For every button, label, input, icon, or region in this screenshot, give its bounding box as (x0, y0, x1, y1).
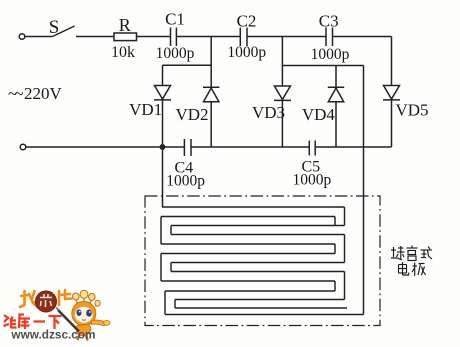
wire VD1 cathode to node A (162, 100, 164, 147)
glyph dian (399, 262, 410, 275)
watermark mascot (56, 290, 110, 340)
svg-text:1000p: 1000p (311, 46, 350, 63)
wire VD5 cathode to bottom rail (391, 100, 393, 147)
svg-text:R: R (119, 15, 131, 35)
capacitor C3 (325, 28, 327, 47)
maze electrode dashed enclosure (145, 196, 380, 326)
capacitor C5 (308, 141, 310, 156)
diode VD5 (384, 86, 400, 100)
maze electrode pattern (161, 207, 364, 315)
wire node A to maze electrode left side (162, 147, 164, 207)
svg-text:VD2: VD2 (175, 105, 208, 124)
capacitor C2 (239, 28, 241, 47)
svg-text:220V: 220V (24, 84, 63, 103)
electrode track horizontal runs (162, 206, 345, 208)
svg-text:1000p: 1000p (293, 172, 332, 189)
glyph mi (391, 246, 405, 260)
svg-text:~: ~ (15, 84, 24, 103)
svg-text:1000p: 1000p (156, 45, 195, 62)
svg-text:C1: C1 (165, 10, 185, 29)
watermark dark circle emblem (36, 291, 57, 312)
svg-text:1000p: 1000p (227, 44, 266, 61)
wire C1 to C2 (176, 36, 240, 38)
wire switch to resistor (76, 36, 114, 38)
glyph ji (412, 263, 426, 277)
electrode left end caps (160, 217, 162, 245)
svg-text:VD5: VD5 (395, 101, 428, 120)
diode VD3 (274, 86, 290, 100)
wire bottom rail middle (191, 146, 309, 148)
diode VD1 (155, 86, 171, 100)
wire bottom rail right (315, 146, 391, 148)
wire VD4 branch from link (335, 66, 337, 88)
wire feed to maze electrode right side (363, 66, 365, 315)
wire VD4 anode to bottom rail (335, 102, 337, 147)
electrode right end caps (344, 207, 346, 226)
watermark text zhao-xin-pian (20, 290, 72, 307)
glyph shi (421, 247, 433, 260)
wire resistor to C1 (137, 36, 171, 38)
svg-text:C2: C2 (237, 12, 257, 31)
terminal bottom-left (AC input N) (20, 144, 26, 150)
svg-text:VD1: VD1 (129, 100, 162, 119)
node A junction dot (160, 145, 164, 149)
wire bottom rail left (26, 146, 184, 148)
resistor R (114, 33, 137, 41)
svg-text:www.dzsc.com: www.dzsc.com (10, 328, 95, 342)
switch S blade (53, 26, 75, 37)
diode VD2 (203, 86, 219, 88)
wire link VD3 branch to electrode feed (282, 65, 363, 67)
wire VD2 anode to bottom rail (210, 102, 212, 147)
wire VD3 cathode to bottom rail (281, 100, 283, 147)
svg-text:10k: 10k (111, 44, 135, 61)
wire VD2 branch from top rail (210, 37, 212, 88)
watermark text wei-ku-yi-xia (red) (4, 315, 62, 330)
wire down to VD5 anode (391, 37, 393, 86)
svg-text:VD3: VD3 (252, 103, 285, 122)
svg-text:VD4: VD4 (302, 105, 336, 124)
wire C2 to C3 (247, 36, 326, 38)
svg-text:1000p: 1000p (166, 173, 205, 190)
wire link to VD1 anode (162, 65, 164, 85)
diode VD4 (328, 86, 344, 88)
capacitor C1 (170, 28, 172, 47)
svg-text:S: S (49, 17, 60, 38)
glyph gong (407, 246, 418, 261)
wire VD3 branch from top rail (281, 37, 283, 87)
wire C3 to top-right corner (333, 36, 392, 38)
wire terminal to switch (25, 36, 53, 38)
wire link VD1 top to VD2 branch (163, 64, 212, 66)
label maze electrode (Chinese) (391, 246, 432, 277)
capacitor C4 (183, 139, 185, 156)
terminal top-left (AC input L) (19, 34, 25, 40)
svg-text:C3: C3 (319, 12, 339, 31)
